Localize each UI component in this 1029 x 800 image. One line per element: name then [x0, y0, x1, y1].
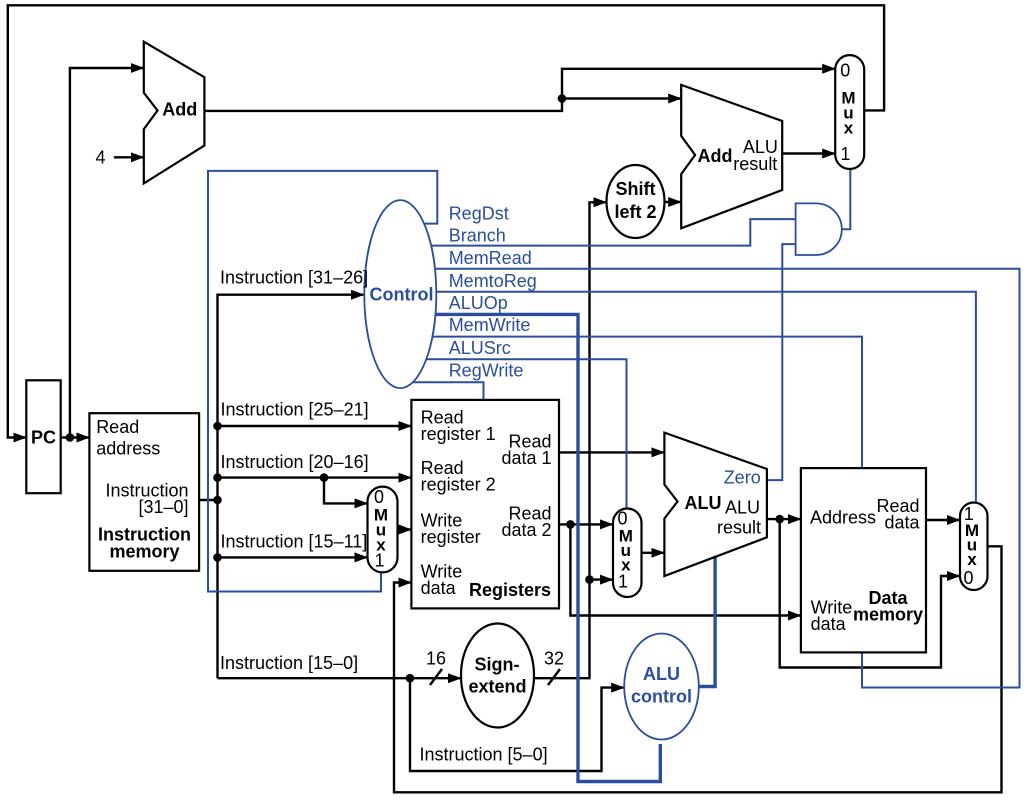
wire: Instruction memory output to bus	[197, 499, 218, 501]
svg-text:ALU: ALU	[725, 498, 760, 518]
wire: ALU control output to ALU	[690, 553, 715, 687]
svg-text:data 1: data 1	[501, 448, 551, 468]
svg-text:address: address	[96, 438, 160, 458]
svg-text:data: data	[811, 614, 847, 634]
wire: Shift left 2 output to second Add input	[662, 201, 681, 203]
svg-text:Add: Add	[698, 146, 733, 166]
mux top (branch select)	[835, 55, 864, 169]
wire: Sign-extend output up to Shift left 2	[531, 202, 607, 678]
wire: alusrc mux output to ALU	[639, 552, 664, 554]
svg-text:0: 0	[963, 568, 973, 588]
svg-text:Add: Add	[162, 100, 197, 120]
shift left 2 oval	[607, 165, 665, 238]
wire: MemRead control signal	[400, 269, 1020, 688]
wire: Instruction[15-11] to regdst mux input 1	[218, 556, 368, 558]
svg-text:Shift: Shift	[616, 179, 656, 199]
wire: MemtoReg control signal	[400, 292, 976, 506]
wire: Instruction[5-0] to ALU control	[410, 678, 624, 771]
wire: Instruction[25-21] to Read register 1	[218, 425, 412, 427]
svg-text:Instruction [15–11]: Instruction [15–11]	[221, 532, 368, 552]
svg-text:register 2: register 2	[421, 475, 496, 495]
wire: Instruction[20-16] to Read register 2	[218, 476, 412, 478]
svg-text:left 2: left 2	[614, 202, 656, 222]
svg-text:data: data	[884, 513, 920, 533]
wire: PC+4 branch to second Add input	[562, 97, 681, 99]
mux alusrc	[613, 509, 642, 598]
svg-text:Address: Address	[810, 508, 876, 528]
svg-text:16: 16	[426, 649, 446, 669]
svg-text:1: 1	[840, 144, 850, 164]
wire: Read data 1 to ALU	[556, 451, 664, 453]
svg-text:register: register	[421, 527, 481, 547]
svg-text:Instruction [5–0]: Instruction [5–0]	[420, 745, 548, 765]
sign-extend oval	[461, 624, 534, 728]
svg-text:Branch: Branch	[449, 226, 506, 246]
node: PC output junction	[66, 433, 75, 442]
svg-text:result: result	[733, 154, 777, 174]
svg-text:Instruction [15–0]: Instruction [15–0]	[220, 653, 358, 673]
node: instr 15-0 tap	[406, 674, 415, 683]
ALU control oval	[624, 634, 699, 740]
svg-text:x: x	[967, 550, 977, 569]
svg-text:result: result	[717, 518, 761, 538]
svg-text:extend: extend	[468, 677, 526, 697]
registers box	[411, 400, 559, 609]
ALU unit	[664, 433, 767, 576]
svg-text:4: 4	[95, 147, 105, 167]
adder Add (PC+4)	[144, 42, 205, 184]
wire: PC output up to Add input	[70, 68, 144, 438]
svg-text:[31–0]: [31–0]	[138, 497, 188, 517]
svg-text:RegWrite: RegWrite	[449, 361, 524, 381]
svg-text:MemWrite: MemWrite	[449, 315, 531, 335]
svg-text:PC: PC	[31, 428, 56, 448]
adder Add (branch target)	[681, 85, 782, 228]
node: instr 20-16 tap	[320, 473, 329, 482]
svg-text:0: 0	[617, 508, 627, 528]
wire: Read data 2 to alusrc mux input 0	[556, 523, 613, 525]
node: bus tap instr 20-16	[213, 473, 222, 482]
PC register	[26, 380, 60, 493]
svg-text:ALU: ALU	[685, 493, 722, 513]
wire: Instruction[15-0] to Sign-extend	[218, 677, 462, 679]
svg-text:Instruction [31–26]: Instruction [31–26]	[220, 268, 368, 288]
svg-text:Sign-: Sign-	[475, 654, 520, 674]
data memory box	[801, 468, 926, 652]
wire: ALUSrc control signal	[400, 359, 627, 512]
instruction memory box	[89, 413, 199, 571]
wire: ALU result bypass to right mux input 0	[780, 519, 960, 667]
wire: AND gate output to top mux select	[838, 167, 850, 229]
node: sign extend line tap	[585, 575, 594, 584]
wire: Branch control signal to AND gate	[400, 219, 799, 246]
svg-text:0: 0	[374, 487, 384, 507]
svg-text:Read: Read	[96, 417, 139, 437]
wire: RegWrite control signal	[400, 382, 484, 402]
svg-text:32: 32	[544, 649, 564, 669]
wire: Zero flag to AND gate	[763, 244, 799, 480]
wire: second Add output to top mux input 1	[780, 152, 835, 154]
svg-text:MemRead: MemRead	[449, 248, 532, 268]
svg-text:ALUOp: ALUOp	[449, 293, 508, 313]
slash 16	[430, 669, 442, 685]
AND gate	[796, 203, 842, 255]
svg-text:1: 1	[374, 551, 384, 571]
node: bus tap instr 25-21	[213, 422, 222, 431]
svg-text:MemtoReg: MemtoReg	[449, 271, 537, 291]
node: ALU result tap	[775, 515, 784, 524]
svg-text:x: x	[844, 119, 854, 138]
svg-text:Registers: Registers	[469, 580, 551, 600]
wire: Data memory Read data to right mux input 1	[923, 519, 960, 521]
svg-text:Instruction [20–16]: Instruction [20–16]	[221, 452, 369, 472]
svg-text:ALU: ALU	[643, 664, 680, 684]
wire: regdst mux output to Write register	[395, 528, 411, 530]
wire: PC to Instruction memory read address	[58, 436, 89, 438]
node: PC+4 junction	[558, 94, 567, 103]
wire: RegDst control signal	[208, 171, 437, 592]
wire: constant 4 into Add	[114, 156, 144, 158]
svg-text:control: control	[631, 687, 692, 707]
node: bus tap instr 15-11	[213, 553, 222, 562]
control oval	[364, 200, 436, 388]
svg-text:data 2: data 2	[501, 520, 551, 540]
wire: right mux output writeback to Registers Write data	[394, 546, 1002, 792]
wire: Instruction[20-16] tap to regdst mux input 0	[324, 478, 368, 504]
wire: ALUOp control signal	[400, 314, 660, 781]
svg-text:RegDst: RegDst	[449, 204, 509, 224]
wire: sign-extend tap to alusrc mux input 1	[590, 578, 614, 580]
svg-text:ALUSrc: ALUSrc	[449, 338, 511, 358]
node: bus tap output	[213, 496, 222, 505]
svg-text:data: data	[421, 578, 457, 598]
slash 32	[548, 669, 560, 685]
svg-text:memory: memory	[109, 542, 179, 562]
svg-text:Control: Control	[370, 285, 434, 305]
node: read data 2 tap	[566, 520, 575, 529]
svg-text:1: 1	[618, 571, 628, 591]
mux regdst	[368, 487, 398, 573]
wire: Read data 2 tap to Data memory Write data	[570, 524, 801, 615]
svg-text:0: 0	[840, 60, 850, 80]
wire: MemWrite control signal	[400, 337, 862, 471]
svg-text:Zero: Zero	[724, 468, 761, 488]
svg-text:register 1: register 1	[421, 424, 496, 444]
svg-text:memory: memory	[853, 605, 923, 625]
wire: top mux output loop to PC input	[8, 5, 884, 437]
wire: instruction bus vertical and into Control	[218, 295, 365, 679]
wire: ALU result to Data memory Address	[763, 518, 801, 520]
mux memtoreg (right)	[960, 503, 988, 591]
wire: Add output PC+4 to top mux input 0	[202, 69, 835, 111]
svg-text:Instruction [25–21]: Instruction [25–21]	[221, 400, 369, 420]
